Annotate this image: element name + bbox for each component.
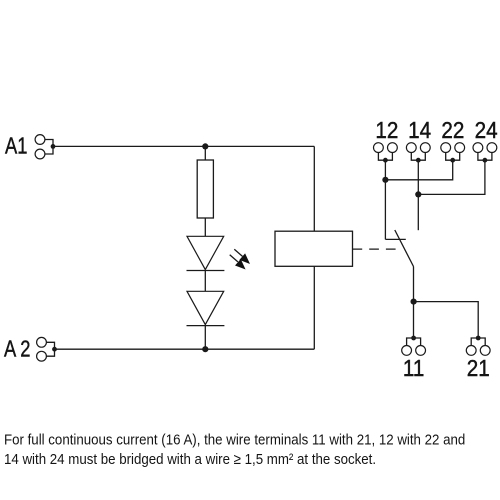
svg-text:22: 22 <box>441 117 464 144</box>
wire 12 down <box>384 160 386 239</box>
svg-text:A1: A1 <box>5 133 27 159</box>
switch lever <box>395 230 414 267</box>
svg-text:11: 11 <box>403 355 424 382</box>
LED emission arrows <box>230 249 250 268</box>
wire LED to diode <box>204 271 206 292</box>
wire common down <box>413 267 415 339</box>
wire resistor top <box>204 146 206 160</box>
node common-21 <box>411 299 417 305</box>
wire A2 horizontal <box>55 348 315 350</box>
relay coil K1 <box>275 231 353 266</box>
terminal pair 14 <box>406 143 430 163</box>
svg-text:For full continuous current (1: For full continuous current (16 A), the … <box>4 432 465 449</box>
wire diode to A2 line <box>204 326 206 350</box>
svg-text:14: 14 <box>408 117 431 144</box>
LED D1 <box>187 236 225 270</box>
diode D2 <box>187 291 225 325</box>
terminal pair 24 <box>473 143 497 163</box>
wire 24 link <box>418 160 485 194</box>
wire 22 link <box>385 160 452 180</box>
svg-text:A 2: A 2 <box>4 336 30 362</box>
wire A1 horizontal <box>53 145 314 147</box>
svg-text:14 with 24 must be bridged wit: 14 with 24 must be bridged with a wire ≥… <box>4 451 376 468</box>
svg-text:21: 21 <box>467 355 490 382</box>
NC fixed contact bar <box>385 238 405 240</box>
terminal A1 <box>35 135 55 159</box>
wire 14 down <box>417 160 419 230</box>
mechanical link dashed <box>353 248 397 250</box>
node 14-24 <box>415 191 421 197</box>
svg-text:24: 24 <box>475 117 498 144</box>
wire resistor to LED <box>204 218 206 236</box>
node 12-22 <box>382 177 388 183</box>
wire coil bottom to A2 <box>313 266 315 349</box>
terminal A2 <box>37 337 57 361</box>
node junction diode-A2 <box>202 346 208 352</box>
resistor R1 <box>197 160 213 218</box>
terminal pair 21 <box>466 336 490 356</box>
terminal pair 22 <box>441 143 465 163</box>
wire 21 link <box>414 302 479 338</box>
node junction A1-resistor <box>202 143 208 149</box>
wire A1 down to coil <box>313 146 315 231</box>
svg-text:12: 12 <box>375 117 398 144</box>
terminal pair 11 <box>402 336 426 356</box>
terminal pair 12 <box>374 143 398 163</box>
